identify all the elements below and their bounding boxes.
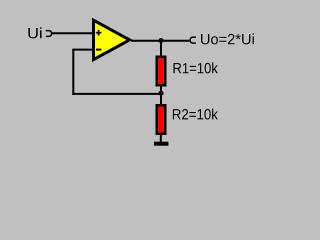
label R1=10k — [173, 62, 217, 73]
op-amp U1 — [94, 20, 130, 59]
output terminal Uo — [190, 37, 196, 43]
ground — [154, 142, 168, 146]
node feedback junction — [158, 91, 163, 96]
wire R2 to ground — [160, 133, 162, 143]
wire op-amp output to output terminal — [131, 40, 189, 42]
label Uo=2*Ui — [201, 33, 254, 44]
resistor R1 — [157, 57, 166, 86]
label Ui — [28, 27, 41, 38]
wire output node down to R1 — [160, 41, 162, 57]
wire middle node down to R2 — [160, 93, 162, 106]
wire feedback to op-amp - input — [72, 49, 93, 51]
node output junction — [158, 38, 163, 43]
wire R1 to middle node — [160, 85, 162, 93]
label R2=10k — [173, 109, 218, 120]
wire feedback vertical — [72, 50, 74, 95]
input terminal Ui — [46, 31, 52, 37]
wire input to op-amp + — [52, 32, 93, 34]
wire feedback horizontal — [72, 93, 161, 95]
resistor R2 — [157, 105, 166, 134]
